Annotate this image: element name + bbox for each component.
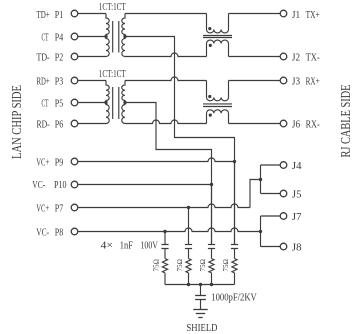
svg-text:TX+: TX+ (306, 10, 320, 21)
svg-text:P1: P1 (55, 10, 63, 21)
svg-text:RX+: RX+ (306, 77, 320, 88)
svg-text:P2: P2 (55, 53, 63, 64)
svg-text:TD+: TD+ (37, 10, 50, 21)
svg-text:TD-: TD- (37, 53, 51, 64)
svg-text:J6: J6 (292, 120, 300, 131)
svg-text:VC+: VC+ (36, 158, 49, 169)
svg-text:J4: J4 (292, 161, 302, 172)
svg-text:P3: P3 (55, 77, 63, 88)
svg-text:75Ω: 75Ω (175, 259, 184, 272)
svg-text:P7: P7 (55, 204, 63, 215)
svg-text:VC-: VC- (36, 228, 49, 239)
svg-text:P8: P8 (55, 228, 63, 239)
svg-text:75Ω: 75Ω (221, 259, 230, 272)
svg-text:J3: J3 (292, 77, 300, 88)
svg-text:RD+: RD+ (37, 77, 50, 88)
svg-text:1000pF/2KV: 1000pF/2KV (211, 293, 257, 304)
svg-text:P9: P9 (55, 158, 63, 169)
svg-text:VC-: VC- (32, 180, 45, 191)
svg-text:VC+: VC+ (36, 204, 49, 215)
svg-text:P6: P6 (55, 120, 63, 131)
svg-text:RD-: RD- (37, 120, 51, 131)
svg-text:CT: CT (42, 33, 49, 44)
svg-text:75Ω: 75Ω (152, 259, 161, 272)
svg-text:RX-: RX- (306, 120, 320, 131)
svg-text:P10: P10 (54, 180, 67, 191)
svg-text:SHIELD: SHIELD (186, 323, 217, 334)
svg-text:J8: J8 (292, 243, 302, 254)
svg-text:P5: P5 (55, 99, 63, 110)
svg-text:1nF: 1nF (120, 241, 133, 252)
svg-text:J1: J1 (292, 10, 300, 21)
svg-text:CT: CT (42, 99, 49, 110)
svg-text:4×: 4× (101, 241, 114, 252)
svg-text:100V: 100V (141, 241, 159, 252)
svg-text:J7: J7 (292, 212, 302, 223)
svg-text:J2: J2 (292, 53, 300, 64)
svg-text:P4: P4 (55, 33, 64, 44)
svg-text:1CT:1CT: 1CT:1CT (99, 2, 126, 13)
svg-text:J5: J5 (292, 190, 302, 201)
svg-text:RJ CABLE SIDE: RJ CABLE SIDE (338, 85, 353, 158)
svg-text:75Ω: 75Ω (198, 259, 207, 272)
svg-text:TX-: TX- (306, 53, 321, 64)
svg-text:1CT:1CT: 1CT:1CT (99, 69, 126, 80)
svg-text:LAN CHIP SIDE: LAN CHIP SIDE (9, 85, 24, 159)
